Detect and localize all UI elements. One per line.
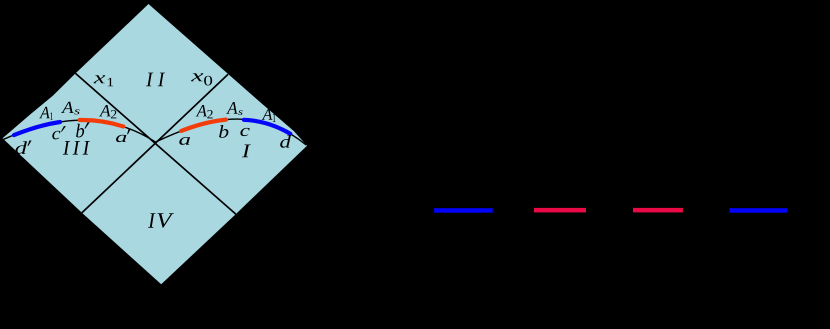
thin black Cauchy slice curve, left (region III) [3, 120, 156, 142]
label I [242, 145, 251, 158]
point label b of b' [76, 124, 84, 138]
legend dash blue 2 [730, 208, 788, 213]
prime of d' [27, 141, 31, 146]
prime of c' [61, 126, 66, 132]
blue interval A1 on left slice (d' to c') [14, 122, 60, 135]
blue interval A1 on right slice (c to d) [244, 120, 290, 134]
point label b [219, 125, 228, 138]
label A1 left subscript 1 [50, 113, 53, 120]
point label d [280, 135, 291, 148]
label III stroke 3 [83, 141, 90, 155]
label II stroke 2 [158, 73, 165, 87]
legend dash red 1 [534, 208, 586, 213]
point label a [179, 137, 190, 145]
label III stroke 1 [63, 141, 70, 155]
label x1 subscript 1 [108, 78, 114, 86]
label IV glyph V [157, 213, 174, 228]
prime of a' [127, 129, 131, 134]
label IV glyph I [148, 213, 156, 228]
label x0 subscript 0 [204, 76, 212, 86]
point label c of c' [52, 131, 60, 140]
label A1 right glyph A [262, 109, 273, 120]
label A2 left glyph A [99, 105, 111, 116]
label III stroke 2 [73, 141, 81, 155]
label As left subscript s [74, 109, 79, 114]
label As left glyph A [61, 102, 74, 113]
red interval A2 on left slice (b' to a') [80, 120, 124, 127]
horizon line x1 (upper-left to lower-right through center) [76, 73, 236, 214]
point label a of a' [116, 135, 126, 142]
label As right subscript s [238, 110, 242, 115]
Penrose diagram diamond (light blue fill) [3, 4, 308, 284]
label II stroke 1 [146, 73, 153, 87]
label A1 left glyph A [39, 107, 50, 119]
label A2 left subscript 2 [111, 110, 116, 118]
thin black Cauchy slice curve, right (region I) [155, 119, 306, 145]
prime of b' [84, 122, 89, 128]
label A2 right subscript 2 [207, 110, 212, 118]
label x1 glyph x [94, 75, 106, 83]
legend dash blue 1 [434, 208, 493, 213]
label A1 right subscript 1 [273, 113, 276, 122]
label As right glyph A [226, 102, 237, 114]
legend dash red 2 [633, 208, 683, 213]
red interval A2 on right slice (a to b) [181, 120, 226, 131]
horizon line x0 (upper-right to lower-left through center) [82, 74, 228, 213]
point label d of d' [15, 141, 27, 154]
label x0 glyph x [191, 73, 203, 81]
point label c [240, 128, 249, 136]
label A2 right glyph A [196, 105, 207, 116]
